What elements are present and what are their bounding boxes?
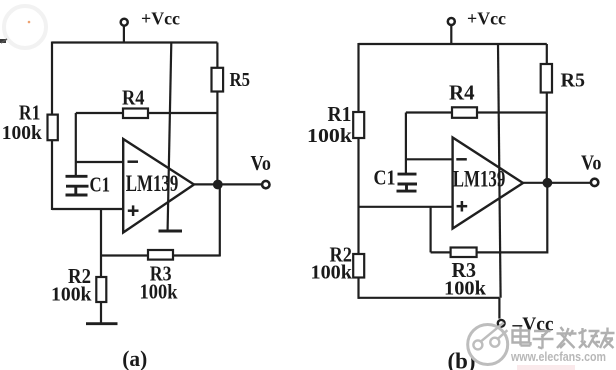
svg-text:R5: R5 bbox=[230, 69, 251, 91]
svg-text:www.elecfans.com: www.elecfans.com bbox=[510, 350, 606, 364]
svg-text:(a): (a) bbox=[122, 346, 147, 370]
svg-text:100k: 100k bbox=[2, 122, 43, 144]
svg-text:+Vcc: +Vcc bbox=[141, 9, 180, 29]
svg-text:100k: 100k bbox=[307, 125, 353, 147]
svg-text:100k: 100k bbox=[444, 278, 487, 300]
svg-text:100k: 100k bbox=[51, 284, 92, 306]
svg-text:100k: 100k bbox=[311, 262, 353, 284]
svg-text:LM139: LM139 bbox=[126, 171, 179, 196]
svg-text:R1: R1 bbox=[328, 102, 352, 126]
svg-text:Vo: Vo bbox=[581, 151, 602, 175]
svg-text:R4: R4 bbox=[122, 86, 145, 110]
svg-text:LM139: LM139 bbox=[453, 167, 506, 192]
svg-text:C1: C1 bbox=[90, 172, 111, 196]
svg-text:R5: R5 bbox=[561, 70, 586, 92]
svg-text:(b): (b) bbox=[448, 349, 476, 370]
svg-text:R4: R4 bbox=[449, 81, 475, 105]
svg-text:+Vcc: +Vcc bbox=[467, 9, 506, 29]
svg-text:C1: C1 bbox=[374, 166, 396, 190]
svg-text:Vo: Vo bbox=[251, 151, 272, 175]
svg-text:100k: 100k bbox=[140, 280, 178, 304]
svg-text:R1: R1 bbox=[19, 101, 41, 125]
